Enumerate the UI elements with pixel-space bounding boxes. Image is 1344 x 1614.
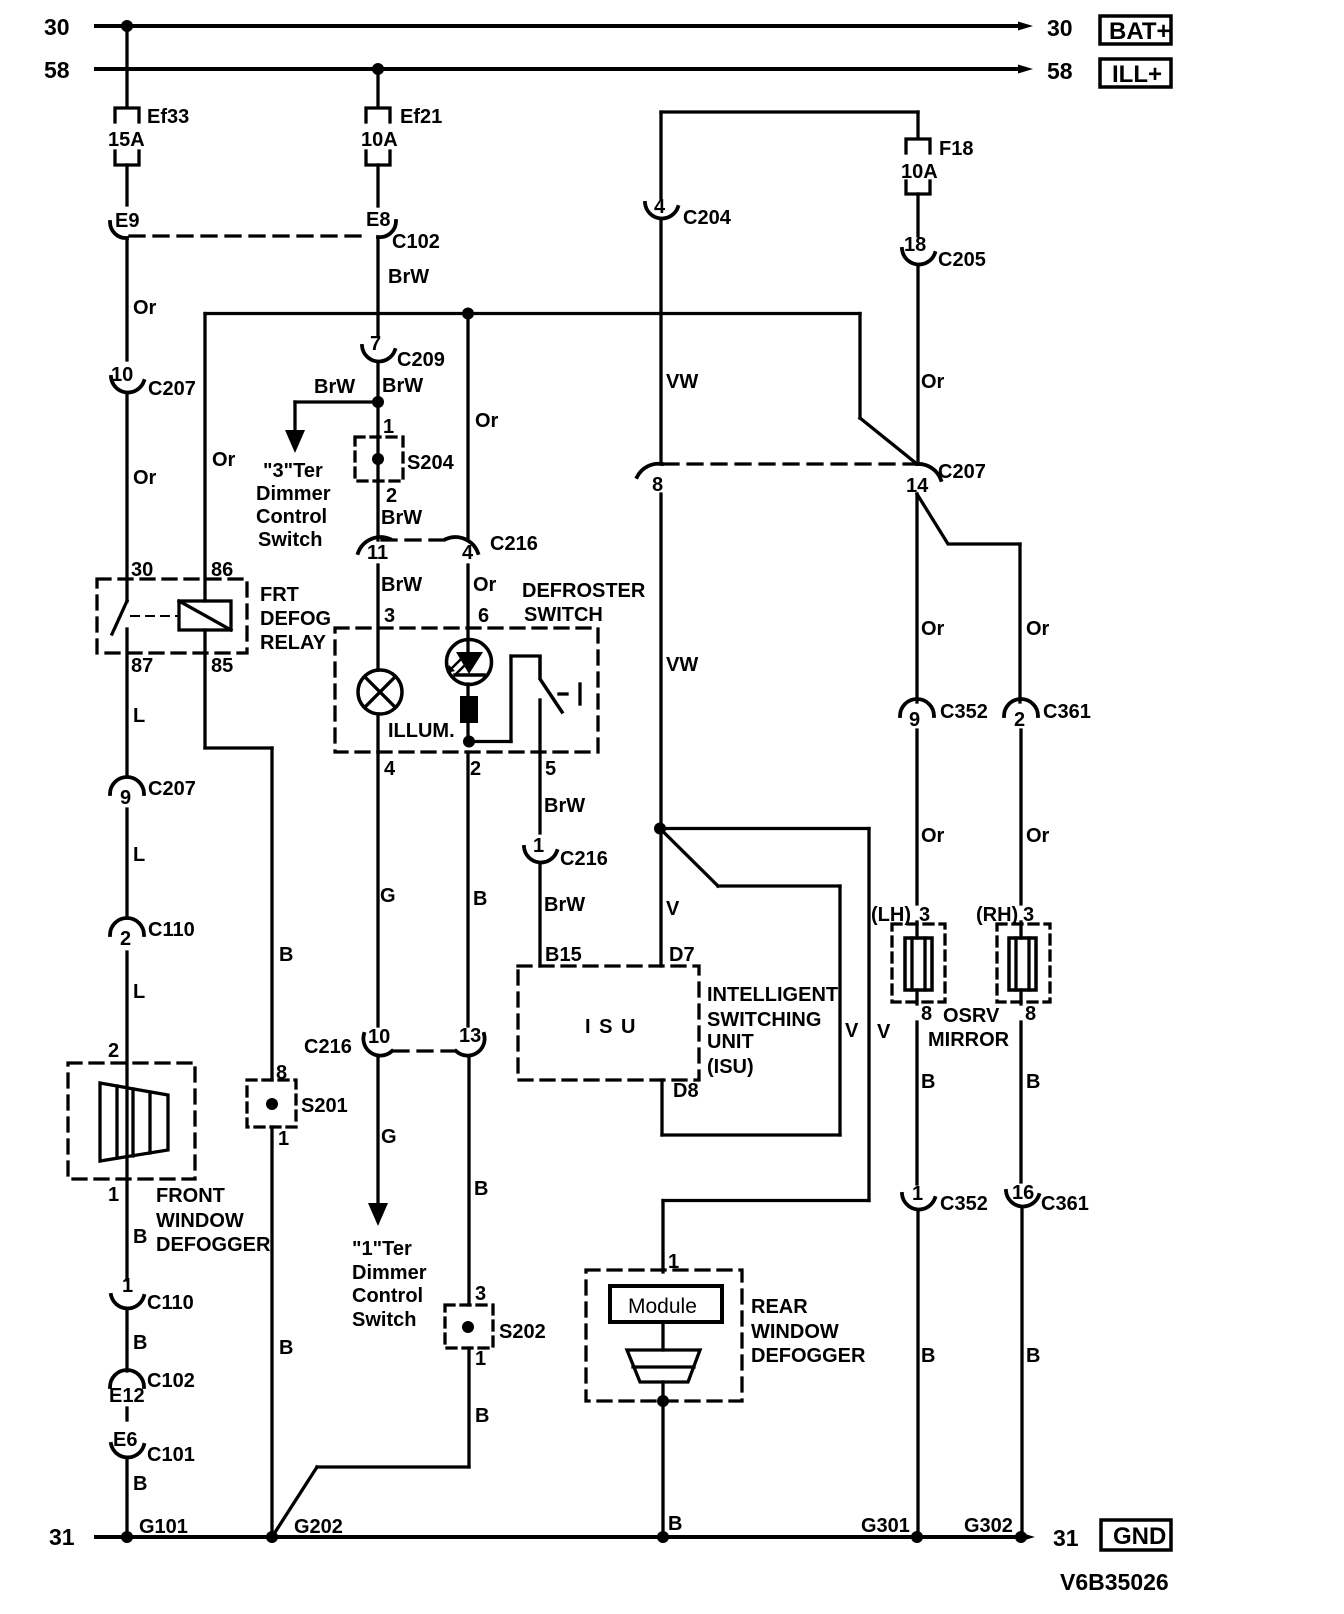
svg-text:(RH): (RH) [976, 904, 1018, 926]
svg-text:B: B [921, 1071, 935, 1093]
svg-text:DEFOGGER: DEFOGGER [156, 1234, 271, 1256]
svg-text:8: 8 [921, 1003, 932, 1025]
svg-text:C205: C205 [938, 249, 986, 271]
svg-text:REAR: REAR [751, 1296, 808, 1318]
svg-text:RELAY: RELAY [260, 632, 327, 654]
svg-text:E6: E6 [113, 1429, 137, 1451]
svg-text:C110: C110 [148, 919, 195, 941]
svg-text:Control: Control [256, 506, 327, 528]
svg-text:86: 86 [211, 559, 233, 581]
svg-text:BrW: BrW [382, 375, 423, 397]
svg-text:C352: C352 [940, 701, 988, 723]
svg-text:SWITCHING: SWITCHING [707, 1009, 821, 1031]
svg-text:Dimmer: Dimmer [256, 483, 331, 505]
svg-text:18: 18 [904, 234, 926, 256]
svg-text:1: 1 [533, 835, 544, 857]
svg-text:G202: G202 [294, 1516, 343, 1538]
svg-text:ILLUM.: ILLUM. [388, 720, 455, 742]
svg-text:WINDOW: WINDOW [751, 1321, 839, 1343]
svg-text:C207: C207 [148, 778, 196, 800]
svg-text:L: L [133, 705, 145, 727]
svg-text:"3"Ter: "3"Ter [263, 460, 323, 482]
svg-text:B: B [133, 1226, 147, 1248]
svg-text:(ISU): (ISU) [707, 1056, 754, 1078]
svg-text:E9: E9 [115, 210, 139, 232]
svg-text:Or: Or [133, 297, 157, 319]
svg-text:(LH): (LH) [871, 904, 911, 926]
svg-text:2: 2 [1014, 709, 1025, 731]
svg-text:B: B [668, 1513, 682, 1535]
svg-text:2: 2 [386, 485, 397, 507]
svg-text:UNIT: UNIT [707, 1031, 754, 1053]
svg-text:B: B [474, 1178, 488, 1200]
svg-text:Or: Or [921, 825, 945, 847]
svg-text:D7: D7 [669, 944, 695, 966]
svg-text:E12: E12 [109, 1385, 145, 1407]
svg-text:13: 13 [459, 1025, 481, 1047]
svg-text:V: V [666, 898, 680, 920]
svg-text:G: G [380, 885, 396, 907]
svg-text:FRT: FRT [260, 584, 299, 606]
svg-text:WINDOW: WINDOW [156, 1210, 244, 1232]
svg-text:F18: F18 [939, 138, 973, 160]
svg-text:1: 1 [912, 1183, 923, 1205]
svg-text:16: 16 [1012, 1182, 1034, 1204]
svg-text:G301: G301 [861, 1515, 910, 1537]
svg-text:1: 1 [475, 1348, 486, 1370]
svg-text:ILL+: ILL+ [1112, 61, 1162, 88]
svg-text:15A: 15A [108, 129, 145, 151]
svg-text:S204: S204 [407, 452, 455, 474]
svg-text:C102: C102 [392, 231, 440, 253]
svg-text:Switch: Switch [258, 529, 322, 551]
svg-text:85: 85 [211, 655, 233, 677]
svg-text:C110: C110 [147, 1292, 194, 1314]
svg-text:B: B [473, 888, 487, 910]
svg-text:Module: Module [628, 1295, 697, 1318]
svg-text:2: 2 [470, 758, 481, 780]
svg-text:V: V [845, 1020, 859, 1042]
svg-text:C102: C102 [147, 1370, 195, 1392]
svg-text:DEFOGGER: DEFOGGER [751, 1345, 866, 1367]
svg-text:B: B [279, 944, 293, 966]
svg-text:87: 87 [131, 655, 153, 677]
svg-text:BrW: BrW [381, 574, 422, 596]
svg-text:Or: Or [475, 410, 499, 432]
svg-text:1: 1 [383, 416, 394, 438]
svg-text:B: B [133, 1473, 147, 1495]
svg-text:C209: C209 [397, 349, 445, 371]
svg-text:31: 31 [49, 1524, 75, 1550]
svg-text:S201: S201 [301, 1095, 348, 1117]
svg-text:8: 8 [652, 474, 663, 496]
svg-text:B: B [133, 1332, 147, 1354]
svg-text:BAT+: BAT+ [1109, 18, 1171, 45]
svg-text:6: 6 [478, 605, 489, 627]
svg-text:S202: S202 [499, 1321, 546, 1343]
svg-text:Or: Or [921, 618, 945, 640]
svg-text:BrW: BrW [544, 894, 585, 916]
svg-text:B: B [279, 1337, 293, 1359]
svg-text:DEFOG: DEFOG [260, 608, 331, 630]
svg-text:V6B35026: V6B35026 [1060, 1569, 1169, 1595]
svg-text:3: 3 [919, 904, 930, 926]
svg-text:10A: 10A [361, 129, 398, 151]
svg-text:G: G [381, 1126, 397, 1148]
svg-text:D8: D8 [673, 1080, 699, 1102]
svg-text:2: 2 [120, 928, 131, 950]
svg-text:BrW: BrW [544, 795, 585, 817]
svg-text:Ef21: Ef21 [400, 106, 442, 128]
svg-text:5: 5 [545, 758, 556, 780]
svg-text:B: B [1026, 1071, 1040, 1093]
svg-text:C216: C216 [490, 533, 538, 555]
svg-text:31: 31 [1053, 1525, 1079, 1551]
svg-text:3: 3 [384, 605, 395, 627]
svg-text:DEFROSTER: DEFROSTER [522, 580, 646, 602]
svg-text:I S U: I S U [585, 1016, 637, 1038]
svg-text:C361: C361 [1041, 1193, 1089, 1215]
svg-text:8: 8 [1025, 1003, 1036, 1025]
svg-text:C352: C352 [940, 1193, 988, 1215]
svg-text:9: 9 [909, 709, 920, 731]
svg-text:Or: Or [1026, 825, 1050, 847]
svg-text:FRONT: FRONT [156, 1185, 225, 1207]
svg-text:BrW: BrW [314, 376, 355, 398]
svg-text:Or: Or [1026, 618, 1050, 640]
svg-text:30: 30 [1047, 15, 1073, 41]
svg-text:B: B [921, 1345, 935, 1367]
svg-text:GND: GND [1113, 1523, 1166, 1550]
svg-text:OSRV: OSRV [943, 1005, 1000, 1027]
svg-text:1: 1 [122, 1275, 133, 1297]
svg-text:VW: VW [666, 654, 698, 676]
svg-text:C101: C101 [147, 1444, 195, 1466]
svg-text:"1"Ter: "1"Ter [352, 1238, 412, 1260]
svg-text:7: 7 [370, 333, 381, 355]
svg-text:Dimmer: Dimmer [352, 1262, 427, 1284]
svg-text:G101: G101 [139, 1516, 188, 1538]
svg-text:3: 3 [1023, 904, 1034, 926]
svg-text:8: 8 [276, 1062, 287, 1084]
svg-text:E8: E8 [366, 209, 390, 231]
svg-text:VW: VW [666, 371, 698, 393]
svg-text:4: 4 [384, 758, 396, 780]
svg-text:C361: C361 [1043, 701, 1091, 723]
svg-text:C216: C216 [560, 848, 608, 870]
svg-text:INTELLIGENT: INTELLIGENT [707, 984, 838, 1006]
svg-text:MIRROR: MIRROR [928, 1029, 1010, 1051]
svg-text:SWITCH: SWITCH [524, 604, 603, 626]
svg-text:G302: G302 [964, 1515, 1013, 1537]
svg-text:L: L [133, 844, 145, 866]
svg-text:Or: Or [921, 371, 945, 393]
svg-text:1: 1 [108, 1184, 119, 1206]
svg-text:Or: Or [212, 449, 236, 471]
svg-text:B15: B15 [545, 944, 582, 966]
svg-text:BrW: BrW [381, 507, 422, 529]
svg-text:1: 1 [278, 1128, 289, 1150]
svg-text:58: 58 [1047, 58, 1073, 84]
svg-text:Or: Or [133, 467, 157, 489]
svg-text:11: 11 [367, 542, 388, 564]
svg-text:Or: Or [473, 574, 497, 596]
svg-text:L: L [133, 981, 145, 1003]
svg-text:14: 14 [906, 475, 929, 497]
svg-text:3: 3 [475, 1283, 486, 1305]
svg-text:BrW: BrW [388, 266, 429, 288]
svg-text:9: 9 [120, 787, 131, 809]
svg-text:Ef33: Ef33 [147, 106, 189, 128]
svg-text:58: 58 [44, 57, 70, 83]
svg-text:C204: C204 [683, 207, 732, 229]
svg-text:1: 1 [668, 1251, 679, 1273]
svg-text:C207: C207 [148, 378, 196, 400]
svg-text:C216: C216 [304, 1036, 352, 1058]
svg-text:4: 4 [462, 542, 474, 564]
svg-text:B: B [475, 1405, 489, 1427]
svg-text:10: 10 [368, 1026, 390, 1048]
svg-text:30: 30 [44, 14, 70, 40]
svg-text:30: 30 [131, 559, 153, 581]
svg-text:B: B [1026, 1345, 1040, 1367]
svg-text:Control: Control [352, 1285, 423, 1307]
svg-text:V: V [877, 1021, 891, 1043]
svg-text:4: 4 [654, 196, 666, 218]
svg-text:10: 10 [111, 364, 133, 386]
svg-text:10A: 10A [901, 161, 938, 183]
svg-text:C207: C207 [938, 461, 986, 483]
svg-text:2: 2 [108, 1040, 119, 1062]
svg-text:Switch: Switch [352, 1309, 416, 1331]
